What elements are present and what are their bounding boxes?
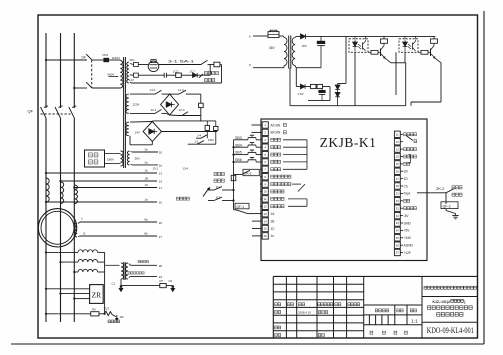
stubs to pins 14-16 [252,220,260,222]
svg-text:2a: 2a [145,161,149,165]
svg-text:13: 13 [264,212,268,216]
wire return [74,87,87,89]
W1 bottom wire [130,82,132,83]
control bus vertical [233,140,235,205]
phase coil on L1 [46,178,49,202]
rail A [296,67,321,69]
svg-text:1.5V: 1.5V [298,92,304,96]
transistor Q [430,49,432,57]
svg-text:3-1 SA-1: 3-1 SA-1 [168,59,194,63]
svg-text:Ch.: Ch. [404,184,409,188]
capacitor C5 [320,36,322,41]
wire fuse to primary [109,59,120,61]
svg-text:B: B [84,232,86,236]
svg-text:36V: 36V [269,46,276,50]
power module box [85,150,105,167]
pin 10 left [260,191,262,193]
svg-text:660V: 660V [108,73,115,77]
row craft [275,334,278,337]
reactor row 2 [61,261,79,263]
svg-text:13-1: 13-1 [153,166,159,170]
winding W4 left (module supply) [121,151,124,166]
transformer T1 secondary winding W2 220V [126,94,129,113]
resistor box row2 [176,73,182,77]
svg-text:1b: 1b [145,169,149,173]
stacked diodes [345,36,347,83]
pin 4 left [260,146,262,148]
svg-text:PR1: PR1 [103,53,109,57]
svg-text:31: 31 [396,206,399,210]
svg-text:J-2: J-2 [194,140,198,144]
diode row2 [193,73,198,78]
transformer T1 secondary winding W1 [127,62,129,83]
svg-text:14: 14 [159,179,163,183]
svg-text:D0: D0 [404,170,408,174]
svg-text:12-4: 12-4 [179,108,185,112]
resistor Rb [200,94,202,103]
svg-text:27: 27 [159,235,163,239]
bridge rectifier VC2 [130,121,152,124]
diode D1 [296,35,301,37]
svg-text:15: 15 [264,227,268,231]
svg-text:A/CAN: A/CAN [271,123,281,127]
sheet count row [370,331,373,334]
LED drop verticals [354,52,356,105]
title block middle section [364,304,422,306]
svg-text:13: 13 [159,171,163,175]
svg-text:SB5: SB5 [235,151,242,155]
pin 28 right [394,183,400,189]
isolator DK linkage dashed [91,60,93,88]
W3 bottom wire [129,136,131,145]
ground [455,214,457,216]
svg-text:20: 20 [159,150,163,154]
wire primary bottom [92,87,120,89]
rail B [308,99,330,101]
key input comb [283,139,307,141]
1.5V circuit [295,68,297,87]
selector small box [231,175,236,180]
base resistor [368,51,371,53]
svg-text:19: 19 [396,162,399,166]
pin 1 left [260,124,262,126]
bus L3 [73,33,75,108]
svg-text:27: 27 [396,177,399,181]
svg-text:ZR: ZR [92,291,102,300]
svg-text:14V: 14V [135,130,140,134]
pin 11 right [394,131,400,137]
svg-text:+34V: +34V [404,236,412,240]
svg-text:14V: 14V [129,78,134,82]
pin 15 left [260,228,262,230]
rail C [290,105,406,107]
pin 19 right [394,161,400,167]
bell/indicator FM [148,61,159,72]
breaker aux QF-2 [445,193,447,204]
capacitor C row2 [163,73,165,78]
remote input comb [288,198,307,200]
zero-sequence CT ring [38,209,76,247]
reactor common vertical [98,251,105,253]
base resistor [418,51,421,53]
W1 tap fuse upper [130,64,134,65]
vertical link x210 [209,65,211,76]
winding W5 right 36V [127,151,129,165]
arrow to relay note [199,74,203,78]
wire 17 [74,187,157,189]
pin 32 right [394,212,400,218]
svg-text:13-1: 13-1 [151,108,157,112]
svg-text:KDO-09-KL4-001: KDO-09-KL4-001 [427,325,474,335]
CT wire 27 [78,235,80,238]
resistor box a [206,121,208,126]
rail drops [354,36,356,38]
svg-text:XQ7: XQ7 [104,306,110,310]
svg-text:C1: C1 [112,281,116,285]
svg-text:1n: 1n [271,234,275,238]
pin 36 right [394,242,400,248]
TV2 ground leg [120,279,122,286]
transformer T1 core [123,57,125,168]
stubs to pins 1-2 [252,124,261,126]
svg-text:180V: 180V [107,158,114,162]
CT secondary coil [75,223,77,237]
relay coil CC [208,64,214,66]
rail drops [404,36,406,38]
svg-text:Fsys: Fsys [404,192,411,196]
breaker QF linkage dashed [41,113,71,115]
pin 31 right [394,205,400,211]
pin 13 left [260,213,262,215]
company cell [422,296,478,298]
reactor row 1 [46,251,78,253]
svg-text:33: 33 [396,221,399,225]
pin 8 left [260,176,262,178]
wire 13 [46,172,157,174]
svg-text:13: 13 [396,147,399,151]
svg-text:32: 32 [396,214,399,218]
product name lines [428,306,431,310]
fuse PR1 [92,59,103,61]
capacitor C6 [321,89,323,91]
ZR feeders from buses [46,288,90,290]
svg-text:2a: 2a [159,163,163,167]
svg-text:26: 26 [396,169,399,173]
pin 26 right [394,168,400,174]
svg-text:1C: 1C [271,227,276,231]
CT wire 26 [78,222,80,224]
bus L2 [60,33,62,108]
switch SA-1 blade [201,60,208,64]
wire relay row2 [138,74,164,76]
svg-text:R7: R7 [160,279,164,283]
svg-text:1J-2: 1J-2 [150,88,156,92]
svg-text:8a: 8a [145,218,149,222]
top rail [306,35,436,37]
svg-text:C9: C9 [169,279,173,283]
title block header row CJK [275,303,278,306]
svg-text:220V: 220V [133,103,140,107]
title block left grid [273,283,363,285]
pin 12 right [394,139,400,145]
svg-text:17: 17 [159,186,163,190]
pin 37 right [394,249,400,255]
timing diagonal [406,136,413,141]
switch ZK-1 [234,174,242,176]
svg-text:12: 12 [396,140,399,144]
top link wire [200,116,202,122]
isolator DK pole 2 [86,82,92,88]
svg-text:JW: JW [120,315,124,319]
wire right loop [221,65,223,84]
pin 14 left [260,220,262,222]
svg-text:23: 23 [396,199,399,203]
svg-text:2008.4.10: 2008.4.10 [298,311,311,315]
wire 1140V feed top [46,59,87,61]
svg-text:12: 12 [264,204,268,208]
W5 wires 2b / 2a [131,151,133,154]
drawing sheet outer border bottom [11,343,484,345]
wire row1 right [220,64,222,66]
svg-text:ZK-2: ZK-2 [436,187,444,191]
svg-text:+5V: +5V [404,229,411,233]
optocoupler U at 349.0 [349,39,368,53]
W2 top wire + contact 1J-2 [130,93,155,95]
W1 tap fuse middle [130,74,134,76]
svg-text:): ) [464,300,465,304]
emitter wire 1 [385,58,392,63]
svg-text:11: 11 [264,197,267,201]
note CJK: outlet relay [205,71,208,74]
svg-text:QF-2: QF-2 [443,204,451,208]
pin 18 right [394,153,400,159]
pin 11 left [260,198,262,200]
earth arrow [116,315,118,319]
surge arrester line [46,313,91,315]
svg-text:1D: 1D [404,177,409,181]
svg-text:13M: 13M [208,138,214,142]
svg-text:35: 35 [396,236,399,240]
svg-text:34: 34 [396,229,399,233]
svg-text:GND: GND [404,221,412,225]
transistor Q [380,49,382,57]
svg-text:13-4: 13-4 [183,166,189,170]
label main switch CJK [214,172,217,175]
pin 13 right [394,146,400,152]
pin 2 left [260,131,262,133]
pin 9 left [260,183,262,185]
svg-text:R9: R9 [92,307,96,311]
svg-text:1B: 1B [271,219,275,223]
bridge1 bottom rail [170,114,178,117]
pin 3 left [260,139,262,141]
svg-text:2b: 2b [145,148,149,152]
emitter wire 2 [435,58,442,63]
fuse F2 [253,35,268,37]
collector resistor [383,36,385,39]
bus L1 [45,33,47,108]
transformer T2 secondary [292,38,295,66]
svg-text:ZKJB-K1: ZKJB-K1 [320,135,377,150]
row design [275,311,278,314]
svg-text:AGND: AGND [404,243,414,247]
pin 7 left [260,168,262,170]
title block outline [273,275,477,277]
svg-text:ZK-1: ZK-1 [244,171,251,175]
svg-text:QF-1: QF-1 [236,205,244,209]
transformer T1 primary winding [120,61,123,89]
svg-text:14: 14 [264,219,268,223]
svg-text:1:1: 1:1 [411,318,418,324]
pin 6 left [260,161,262,163]
pin 27 right [394,175,400,181]
svg-text:16: 16 [159,200,163,204]
pin 34 right [394,227,400,233]
svg-text:1a: 1a [145,198,149,202]
controller ZKJB-K1 box [261,119,427,261]
svg-text:10: 10 [264,190,268,194]
wire relay row1 [138,64,148,66]
svg-text:38: 38 [159,264,163,268]
resistor box b [215,121,217,127]
pin 22 right [394,190,400,196]
wire 14 [61,180,158,182]
pin 16 left [260,235,262,237]
isolator DK pole 1 [86,54,92,60]
transformer T2 core [288,36,290,69]
bridge2 output wire [162,131,218,133]
transformer T1 secondary winding W3 14V [126,122,129,136]
row check [275,326,278,329]
wire row1 to switch SA-1 [159,64,201,66]
svg-text:26: 26 [159,221,163,225]
TV2 output wires [129,264,131,266]
rail D [411,101,441,103]
pin 23 right [394,198,400,204]
optocoupler U at 399.0 [399,39,418,53]
phase coil on L2 [61,182,64,204]
svg-text:37: 37 [396,251,399,255]
svg-text:36: 36 [396,243,399,247]
svg-text:J-4: J-4 [197,134,201,138]
ZR module box [90,285,104,304]
resistor R9 [91,312,99,316]
svg-text:8b: 8b [145,232,149,236]
svg-text:22: 22 [396,192,399,196]
svg-text:QF: QF [28,109,34,114]
svg-text:SB6: SB6 [235,158,242,162]
svg-text:18V: 18V [302,44,307,48]
svg-text:11: 11 [396,133,399,137]
svg-text:B/CAN: B/CAN [271,131,281,135]
svg-text:36V: 36V [130,58,135,62]
pin 33 right [394,220,400,226]
pin 12 left [260,205,262,207]
svg-text:28: 28 [396,184,399,188]
svg-text:1B: 1B [145,177,149,181]
linkage arrow [203,189,209,197]
drawing sheet inner border [38,15,478,338]
svg-text:+12F: +12F [404,251,411,255]
reactor row 3 [74,271,78,273]
pin 5 left [260,154,262,156]
svg-text:18: 18 [396,155,399,159]
svg-text:36V: 36V [135,157,140,161]
bridge rectifier VC1 [161,94,179,115]
aux transformer TV2 [105,264,120,266]
svg-text:KJZ-□/31(4: KJZ-□/31(4 [432,300,449,304]
svg-text:16: 16 [264,234,268,238]
svg-text:1C: 1C [145,183,149,187]
circuit breaker QF blades [41,107,47,118]
contact 1J-3 [170,93,179,95]
W2 bottom wire + contact [130,112,155,114]
wire to ZK-2 [417,192,437,194]
backup bracket [409,154,411,156]
ground resistor R7 [121,285,160,287]
label stage mark [375,309,378,312]
svg-text:SB3: SB3 [235,136,242,140]
collector resistor [433,36,435,39]
svg-text:SB4: SB4 [235,143,242,147]
drawing sheet outer border right [483,11,485,344]
tap 660V [109,76,119,78]
wire 16 common [46,201,157,203]
breaker aux QF-1 [235,203,249,209]
phase coil on L3 [74,185,77,204]
svg-text:-5V: -5V [404,214,410,218]
pin 35 right [394,235,400,241]
